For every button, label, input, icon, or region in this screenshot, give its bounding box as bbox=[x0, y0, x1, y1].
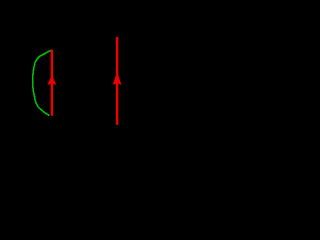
current arrow I1 (mid-line arrowhead, pointing up) bbox=[47, 75, 56, 85]
current arrow I2 (mid-line arrowhead, pointing up) bbox=[113, 72, 122, 85]
wire segment (right straight wire, red) bbox=[116, 37, 118, 125]
wire segment (left branch of loop, red) bbox=[51, 50, 53, 116]
loop C (green left half of conducting loop, cubic arc) bbox=[33, 50, 52, 116]
